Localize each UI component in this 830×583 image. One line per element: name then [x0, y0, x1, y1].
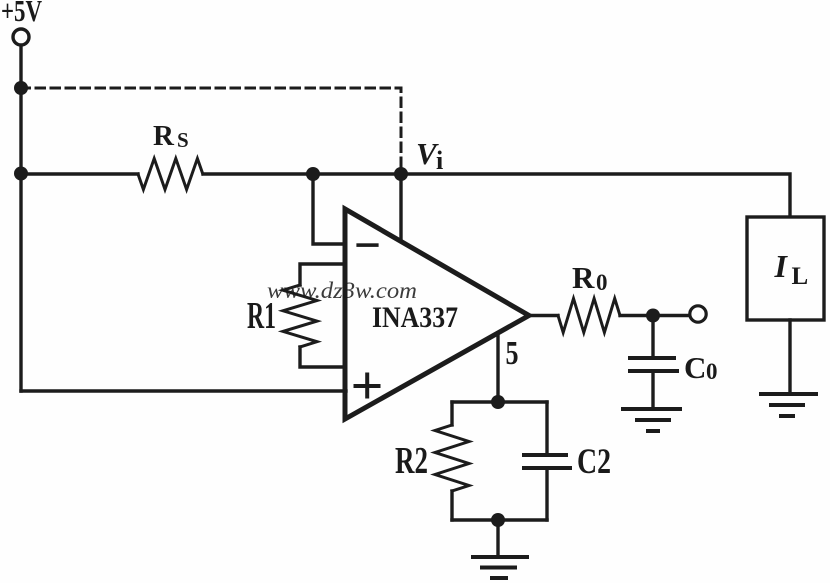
svg-text:L: L [792, 263, 809, 290]
wire main horizontal right [203, 174, 790, 217]
wire to non-inverting input [21, 389, 346, 392]
svg-text:+5V: +5V [1, 0, 42, 28]
wire main horizontal left [21, 172, 138, 175]
svg-text:0: 0 [596, 270, 608, 295]
wire C2 bottom stub [545, 468, 548, 520]
resistor R1 bracket top wire [300, 264, 345, 285]
svg-text:5: 5 [506, 335, 519, 372]
label INA337 [372, 301, 458, 334]
wire output node to C0 [651, 316, 654, 359]
ground below IL [761, 394, 816, 416]
ground below C0 [623, 409, 680, 431]
label pin 5 [506, 335, 519, 372]
wire to inverting input [313, 174, 346, 244]
node minus-branch junction [306, 167, 320, 181]
node dashed-start junction [14, 81, 28, 95]
wire bottom to ground [496, 520, 499, 557]
wire pin 5 [496, 333, 499, 402]
resistor R1 bracket bottom wire [300, 347, 345, 367]
svg-text:i: i [436, 146, 443, 175]
wire op-amp output [529, 314, 558, 317]
wire C2 top stub [545, 402, 548, 455]
wire R2C2 top [452, 400, 547, 403]
node pin5 junction [491, 395, 505, 409]
load IL box [747, 217, 824, 320]
ground below R2C2 [473, 557, 527, 578]
op-amp plus sign [356, 375, 379, 397]
label RS [153, 120, 189, 152]
label Vi [416, 136, 443, 175]
svg-text:R: R [572, 260, 595, 295]
resistor R0 [558, 299, 620, 333]
label C2 [577, 441, 611, 481]
wire dashed feedback [21, 88, 401, 168]
capacitor C2 [524, 455, 570, 468]
wire R2 top stub [450, 402, 453, 425]
resistor R2 [435, 425, 469, 491]
wire C0 to ground [651, 371, 654, 409]
op-amp minus sign [356, 243, 378, 247]
wire Vi down to op-amp top edge [399, 174, 402, 241]
+5V label [1, 0, 42, 28]
svg-text:www.dz3w.com: www.dz3w.com [267, 278, 417, 303]
watermark [267, 278, 417, 303]
+5V terminal [13, 29, 29, 45]
label IL [774, 248, 809, 290]
wire left vertical [19, 46, 22, 392]
wire R2C2 bottom [452, 518, 547, 521]
resistor R1 [283, 285, 317, 347]
svg-text:C: C [684, 350, 706, 385]
wire IL to ground [788, 320, 791, 394]
label R1 [247, 295, 276, 337]
output terminal [690, 306, 706, 322]
svg-text:I: I [774, 248, 789, 284]
capacitor C0 [630, 358, 677, 371]
wire R2 bottom stub [450, 491, 453, 520]
label R0 [572, 260, 608, 295]
label C0 [684, 350, 718, 385]
node main-wire left junction [14, 167, 28, 181]
svg-text:S: S [177, 128, 189, 152]
svg-text:R: R [153, 120, 175, 152]
wire output to terminal [620, 314, 689, 317]
svg-text:R2: R2 [395, 440, 428, 482]
svg-text:C2: C2 [577, 441, 611, 481]
node output junction [646, 309, 660, 323]
label R2 [395, 440, 428, 482]
node Vi [394, 167, 408, 181]
resistor RS [138, 159, 203, 190]
svg-text:INA337: INA337 [372, 301, 458, 334]
svg-text:0: 0 [706, 359, 718, 384]
node R2C2 bottom junction [491, 513, 505, 527]
op-amp U1 INA337 triangle [345, 209, 529, 419]
